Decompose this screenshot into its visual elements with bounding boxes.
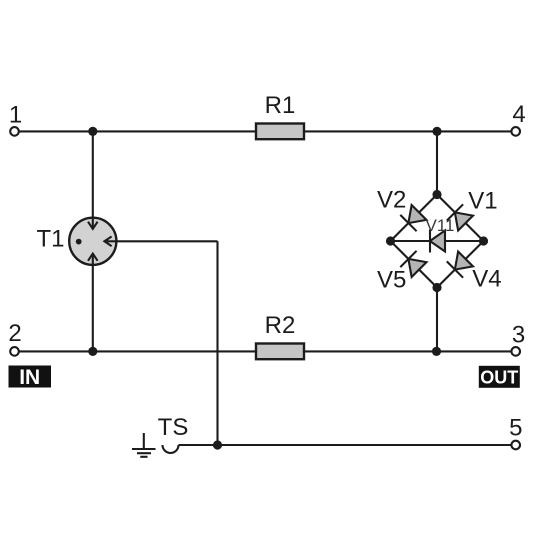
wire from bridge bottom node down to bottom rail junction bbox=[436, 288, 438, 352]
svg-text:V2: V2 bbox=[377, 187, 406, 214]
junction node bottom rail / bridge bbox=[432, 347, 441, 356]
svg-text:1: 1 bbox=[9, 102, 22, 129]
svg-text:TS: TS bbox=[158, 414, 189, 441]
junction node top rail / bridge bbox=[432, 127, 441, 136]
wire from top rail junction down to T1 top electrode bbox=[92, 131, 94, 229]
terminal 4 bbox=[511, 101, 525, 136]
svg-text:OUT: OUT bbox=[480, 368, 518, 388]
IN label bbox=[9, 366, 52, 390]
DIN rail contact TS bbox=[158, 414, 189, 453]
wire from T1 bottom electrode down to bottom rail junction bbox=[92, 254, 94, 352]
wire from top rail junction down to bridge top node bbox=[436, 131, 438, 194]
wire vertical from corner down to TS rail junction bbox=[216, 241, 218, 445]
junction node TS rail / T1 bbox=[213, 440, 222, 449]
terminal 3 bbox=[511, 322, 525, 356]
wire top rail from terminal 1 to terminal 4 bbox=[18, 130, 512, 132]
wire bottom rail from terminal 2 to terminal 3 bbox=[18, 350, 512, 352]
wire bridge middle: left node to right node bbox=[391, 240, 484, 242]
surge arrester T1 bbox=[36, 218, 116, 265]
ground bbox=[132, 433, 156, 457]
terminal 5 bbox=[509, 415, 522, 450]
svg-text:V1: V1 bbox=[468, 188, 497, 215]
junction node top rail / T1 bbox=[88, 127, 97, 136]
svg-text:V5: V5 bbox=[377, 267, 406, 294]
svg-text:IN: IN bbox=[19, 366, 40, 389]
svg-text:5: 5 bbox=[509, 415, 522, 442]
node bridge top bbox=[432, 190, 441, 199]
wire TS rail to terminal 5 bbox=[179, 444, 513, 446]
OUT label bbox=[479, 366, 520, 388]
terminal 2 bbox=[8, 320, 21, 356]
wire from T1 right electrode to corner at x=217.5 bbox=[104, 240, 217, 242]
svg-text:2: 2 bbox=[8, 320, 21, 347]
svg-text:V4: V4 bbox=[472, 266, 501, 293]
diode V2 bbox=[377, 187, 427, 232]
diode V1 bbox=[447, 188, 498, 232]
svg-text:V11: V11 bbox=[426, 216, 455, 235]
node bridge left bbox=[386, 236, 395, 245]
node bridge right bbox=[479, 236, 488, 245]
node bridge bottom bbox=[432, 283, 441, 292]
terminal 1 bbox=[9, 102, 22, 136]
svg-text:3: 3 bbox=[512, 322, 525, 349]
junction node bottom rail / T1 bbox=[88, 347, 97, 356]
svg-text:4: 4 bbox=[512, 101, 525, 128]
diode V11 bbox=[426, 216, 455, 253]
wire bridge edge: right node to bottom node bbox=[437, 241, 484, 288]
diode V4 bbox=[447, 251, 502, 293]
wire bridge edge: left node to bottom node bbox=[391, 241, 438, 288]
wire bridge edge: top node to right node bbox=[437, 195, 484, 242]
resistor R2 bbox=[256, 312, 304, 359]
svg-text:R1: R1 bbox=[265, 92, 296, 119]
resistor R1 bbox=[256, 92, 304, 139]
svg-text:T1: T1 bbox=[36, 226, 64, 253]
wire bridge edge: top node to left node bbox=[391, 195, 438, 242]
svg-text:R2: R2 bbox=[265, 312, 296, 339]
diode V5 bbox=[377, 251, 427, 294]
